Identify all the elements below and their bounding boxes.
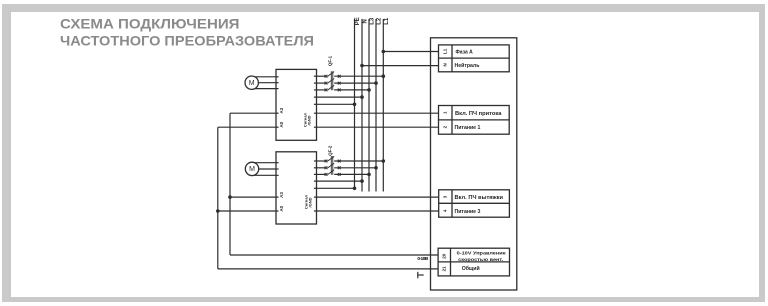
wire bus L2: [375, 19, 377, 192]
label Питание 3: [455, 209, 481, 215]
pin label signal U2: [303, 194, 312, 209]
svg-text:А0: А0: [279, 121, 284, 127]
label Общий: [462, 265, 480, 272]
svg-text:Вкл. ПЧ притока: Вкл. ПЧ притока: [455, 111, 502, 117]
motor M2: [245, 162, 258, 175]
label QF-2: [327, 145, 332, 156]
wire bus L3: [368, 19, 370, 192]
pin 1: [442, 111, 447, 114]
svg-text:М: М: [249, 80, 255, 87]
svg-text:Нейтраль: Нейтраль: [455, 62, 480, 69]
svg-text:L1: L1: [442, 48, 447, 54]
title СХЕМА ПОДКЛЮЧЕНИЯ ЧАСТОТНОГО ПРЕОБРАЗОВАТЕЛЯ: [0, 0, 768, 54]
pin 21: [441, 266, 446, 272]
svg-text:А0: А0: [279, 205, 284, 211]
breaker QF1: [325, 71, 341, 91]
svg-text:2: 2: [442, 125, 447, 128]
label Питание 1: [455, 125, 481, 131]
pin L1: [442, 48, 447, 54]
breaker QF2: [325, 156, 341, 176]
wire U2 N and PE to bus: [317, 179, 364, 190]
svg-text:L1: L1: [384, 17, 390, 25]
node label L1: [384, 17, 390, 25]
pin 3: [442, 195, 447, 198]
svg-text:/GND: /GND: [308, 197, 313, 207]
svg-text:21: 21: [441, 266, 446, 272]
wire motor M2 to U2: [252, 163, 276, 176]
motor M1: [245, 76, 258, 89]
pin label A0 U1: [279, 121, 284, 127]
label QF-1: [327, 55, 332, 66]
label Вкл. ПЧ вытяжки: [455, 195, 504, 201]
VFD U2 (частотный преобразователь 2): [276, 152, 317, 224]
wire bus L1: [382, 19, 384, 192]
node label L3: [369, 17, 375, 25]
pin label A3 U1: [279, 107, 284, 113]
label Фаза А: [456, 49, 474, 55]
pin 20: [441, 253, 446, 259]
label Нейтраль: [455, 62, 480, 69]
polarity mark: [418, 272, 424, 279]
node label N: [362, 19, 368, 23]
pin 2: [442, 125, 447, 128]
wire U1 N and PE to bus: [317, 95, 364, 106]
wire U2 signal to X3.3: [317, 196, 439, 198]
svg-text:20: 20: [441, 253, 446, 259]
svg-text:А3: А3: [279, 192, 284, 198]
svg-text:скоростью вент.: скоростью вент.: [458, 258, 503, 263]
terminal ticks U1: [276, 76, 317, 127]
wire bus PE: [354, 19, 356, 188]
pin label A0 U2: [279, 205, 284, 211]
terminal strip X3 (exhaust fan VFD control): [439, 190, 510, 217]
svg-text:Фаза А: Фаза А: [456, 49, 474, 55]
svg-text:QF-2: QF-2: [327, 145, 332, 156]
svg-text:PE: PE: [355, 17, 361, 25]
wire U1 signal to X2.1: [317, 112, 439, 114]
wire motor M1 to U1: [252, 77, 276, 89]
wire U1 phases to bus: [317, 74, 386, 91]
wire U2 gnd to X3.4: [317, 210, 439, 212]
wire U1 gnd to X2.2: [317, 126, 439, 128]
label 0-10V Управление скоростью вент.: [457, 250, 506, 263]
pin label signal U1: [302, 112, 311, 127]
svg-text:Питание 1: Питание 1: [455, 125, 481, 131]
svg-text:Общий: Общий: [462, 265, 480, 272]
node label PE: [355, 17, 361, 25]
pin 4: [442, 209, 447, 212]
svg-text:0-10V Управление: 0-10V Управление: [457, 250, 506, 256]
svg-text:QF-1: QF-1: [327, 55, 332, 66]
node label L2: [376, 17, 382, 25]
terminal strip X2 (supply fan VFD control): [439, 106, 510, 135]
terminal strip X1 (mains): [439, 45, 510, 72]
svg-text:3: 3: [442, 195, 447, 198]
pin label A3 U2: [279, 192, 284, 198]
controller box A1: [431, 38, 517, 290]
wire common net: [216, 127, 438, 269]
svg-text:L2: L2: [376, 17, 382, 25]
VFD U1 (частотный преобразователь 1): [276, 69, 317, 140]
svg-text:0-10В: 0-10В: [417, 256, 428, 261]
terminal strip X4 (0-10V speed): [438, 248, 509, 276]
svg-text:/GND: /GND: [307, 115, 312, 125]
wire bus N: [361, 19, 363, 192]
svg-text:L3: L3: [369, 17, 375, 25]
svg-text:А3: А3: [279, 107, 284, 113]
svg-text:М: М: [249, 166, 255, 173]
svg-text:N: N: [442, 63, 447, 66]
svg-text:Питание 3: Питание 3: [455, 209, 481, 215]
label Вкл. ПЧ притока: [455, 111, 502, 117]
wire 0-10V net: [228, 113, 438, 255]
wire U2 phases to bus: [317, 159, 386, 176]
svg-text:1: 1: [442, 111, 447, 114]
wire N to Нейтраль: [360, 64, 438, 68]
pin N: [442, 63, 447, 66]
svg-text:Вкл. ПЧ вытяжки: Вкл. ПЧ вытяжки: [455, 195, 504, 201]
label 0-10В: [417, 256, 428, 261]
terminal ticks U2: [276, 161, 317, 211]
svg-text:N: N: [362, 19, 368, 23]
svg-text:4: 4: [442, 209, 447, 212]
wire L1 to Фаза А: [382, 50, 439, 54]
